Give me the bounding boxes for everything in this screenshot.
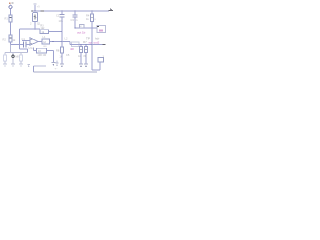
ferrite bead FB1 [72, 42, 80, 46]
junction rail x75 [74, 10, 76, 12]
svg-text:C3 1n: C3 1n [71, 18, 78, 22]
svg-text:+9: +9 [37, 6, 40, 9]
wire y44.5 output bus [70, 44, 92, 46]
wire U1 output [39, 41, 43, 43]
power flag right end [109, 9, 114, 11]
label R1 [5, 17, 9, 21]
resistor R10 x21 [20, 55, 23, 61]
R9 value text below [38, 54, 47, 57]
junction rail x35 [34, 10, 36, 12]
svg-text:1: 1 [103, 55, 105, 59]
svg-text:4R: 4R [70, 47, 75, 51]
ground G1 [3, 63, 7, 65]
label C3 [71, 18, 78, 22]
label gray above out2 [95, 37, 99, 41]
wire feedback vertical x19 [19, 29, 21, 45]
svg-text:R7: R7 [83, 40, 87, 44]
connector J2 [98, 58, 103, 62]
label C2 [56, 14, 63, 23]
resistor R6 branch x86 [84, 47, 87, 53]
op-amp U1 [30, 38, 38, 45]
input port J1 circle [9, 6, 12, 9]
wire + input [22, 40, 30, 42]
wire y28 to R4 column [75, 27, 97, 29]
speaker box LS1 [97, 26, 106, 33]
label R2 [3, 38, 7, 42]
wire C1 to opamp [26, 44, 30, 46]
VCC flag small [33, 4, 36, 5]
capacitor C2 top wire [61, 11, 63, 15]
junction 92,44.5 [91, 44, 93, 46]
resistor R5 branch x81 [79, 47, 82, 53]
svg-text:hdr: hdr [95, 37, 99, 41]
bias bus wire [5, 52, 28, 54]
svg-text:C2: C2 [56, 14, 60, 18]
junction 86,44.5 [85, 44, 87, 46]
resistor R8 x62 [60, 47, 63, 53]
node B2 junction [61, 41, 63, 43]
wire node B2 right [62, 41, 70, 43]
label 9V on rail [31, 10, 44, 12]
label above bus pink [89, 41, 93, 45]
resistor R4 [90, 14, 93, 21]
transistor Q1 body [33, 13, 38, 22]
wire input node horizontal [11, 44, 24, 46]
wire y29 horizontal [20, 28, 41, 30]
wire R2 down to input node [10, 42, 12, 45]
capacitor C2 [60, 15, 65, 17]
wire J1 to R1 [10, 9, 12, 16]
wire y44.5 to out terminal [92, 44, 105, 46]
svg-text:3: 3 [94, 19, 96, 21]
label U1 [29, 46, 35, 50]
label gray mid [66, 53, 70, 57]
wire C2 down [61, 17, 63, 42]
svg-text:+ -: + - [55, 68, 58, 71]
ground G3 [19, 63, 23, 65]
top rail VCC [31, 10, 109, 12]
svg-text:12: 12 [43, 41, 46, 44]
svg-text:TP: TP [86, 37, 90, 41]
label R2 value right [13, 38, 16, 42]
LS1 corner mark [97, 26, 99, 28]
label J2 pin [103, 55, 105, 59]
U2 inner mark [43, 41, 46, 44]
resistor R3 [40, 30, 49, 34]
junction 53,41.5 [52, 41, 53, 42]
svg-text:MK1: MK1 [16, 55, 22, 58]
svg-text:10n: 10n [59, 19, 64, 23]
wire rail to R4 [91, 11, 93, 14]
label above J1 [9, 2, 14, 4]
R9 label above [44, 46, 48, 48]
label Q1 [30, 22, 41, 26]
wire Q1 to node [34, 22, 36, 29]
wire R8 to ground [61, 42, 63, 48]
wire out loop down [91, 45, 93, 71]
label net out pink [77, 31, 86, 35]
label pink mid [70, 47, 75, 51]
resistor R1 [9, 15, 12, 22]
wire R4 down [91, 21, 93, 44]
svg-text:1k: 1k [13, 38, 16, 42]
wire input node down to bus [10, 45, 12, 53]
junction at 75,28 [74, 27, 76, 29]
opamp bottom pin wire [33, 48, 35, 51]
svg-text:sp: sp [89, 41, 93, 45]
battery box BT1 top edge [34, 65, 47, 67]
wire drop x13 [12, 53, 14, 55]
wire jog down [69, 42, 71, 45]
capacitor C3 [73, 15, 78, 17]
svg-text:out 1b: out 1b [77, 31, 86, 35]
LS1 pink mark [99, 30, 103, 32]
Q1 inner mark [34, 15, 36, 20]
wire bias branch [19, 45, 21, 50]
box U2 [42, 39, 50, 44]
svg-text:R8: R8 [56, 49, 60, 53]
svg-text:C5: C5 [66, 53, 70, 57]
wire R9 to ground column [47, 50, 54, 52]
wire R5 to ground [80, 45, 82, 47]
wire R6 to ground [85, 45, 87, 47]
wire out loop up [99, 62, 101, 70]
VCC stub above Q1 [34, 5, 36, 11]
svg-text:8R: 8R [84, 55, 87, 58]
label R4 [86, 14, 90, 21]
relay contact K1 on wire [80, 25, 85, 28]
label U2 [43, 35, 46, 39]
label above bus gray [83, 40, 87, 44]
wire drop x5 [4, 53, 6, 56]
ground G10 x57 [55, 62, 58, 64]
junction rail x62 [61, 10, 63, 12]
svg-text:L2: L2 [65, 37, 68, 41]
wire R10 gnd [20, 61, 22, 64]
capacitor C6 x5 [4, 55, 7, 61]
junction at 35,29 [34, 28, 36, 30]
wire opamp pin to R9 [34, 50, 37, 52]
junction rail x92 [91, 10, 93, 12]
junction 81,44.5 [80, 44, 82, 46]
wire drop x21 [20, 53, 22, 56]
node A junction [19, 44, 21, 46]
svg-text:R2: R2 [3, 38, 7, 42]
wire out loop right [92, 69, 100, 71]
svg-text:2: 2 [30, 22, 32, 26]
label out2 pink [94, 41, 100, 45]
capacitor C1 plates [23, 42, 25, 48]
svg-text:10R 1W: 10R 1W [38, 54, 47, 57]
ground G6 [84, 63, 88, 65]
svg-text:L1: L1 [43, 35, 46, 39]
ground bus long wire [34, 71, 98, 73]
junction at 92,28 [91, 27, 93, 29]
resistor R2 [9, 35, 12, 42]
label inside box [55, 68, 58, 71]
small ground x28 [27, 64, 30, 66]
svg-text:out2: out2 [94, 41, 100, 45]
R9 inner text [38, 50, 41, 53]
battery box left edge [33, 66, 35, 72]
label C7 [16, 55, 22, 58]
ground G9 [51, 61, 55, 63]
wire C6 gnd [4, 61, 6, 64]
svg-text:R1: R1 [5, 17, 9, 21]
wire C3 down [74, 17, 76, 28]
wire R3 to node B [49, 31, 63, 33]
label R8 [56, 49, 60, 53]
microphone MK1 x13 [12, 55, 15, 58]
node B junction [61, 31, 63, 33]
svg-text:1k2: 1k2 [41, 27, 46, 30]
ground G8 [60, 63, 64, 65]
wire R1 to R2 [10, 22, 12, 35]
out terminal tick [103, 44, 106, 46]
zobel resistor R9 [37, 48, 47, 53]
label R3 [41, 24, 46, 30]
ground G5 [79, 63, 83, 65]
capacitor C3 top wire [74, 11, 76, 15]
wire U2 to node B [50, 41, 63, 43]
ground G2 [11, 63, 15, 65]
label TP gray [86, 37, 90, 41]
